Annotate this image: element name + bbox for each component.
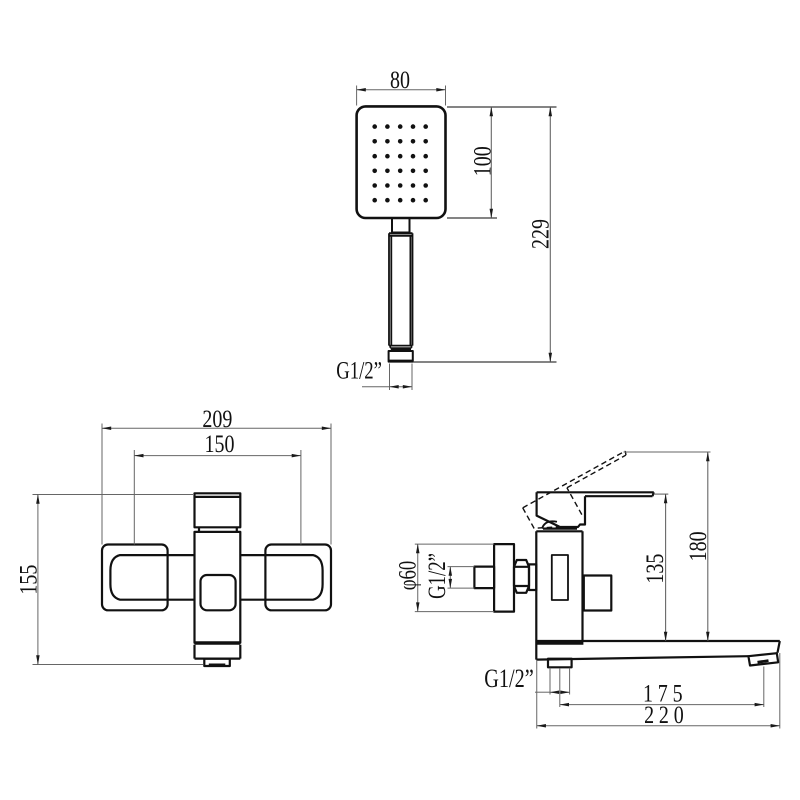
left wing escutcheon (102, 545, 168, 611)
svg-text:155: 155 (15, 565, 43, 595)
dimension phi60 (415, 544, 494, 612)
spout (536, 641, 780, 660)
dimension 135 (654, 494, 669, 641)
handle cap (195, 493, 241, 527)
svg-text:180: 180 (684, 531, 712, 561)
G1/2 connector nut (389, 351, 413, 362)
svg-text:220: 220 (644, 701, 688, 729)
dimension G1/2 (side bottom) (535, 668, 570, 695)
svg-text:G1/2”: G1/2” (484, 665, 534, 694)
dimension 80 (357, 86, 446, 106)
shower head outline (357, 106, 446, 218)
neck (543, 527, 577, 529)
lower band (195, 645, 241, 659)
right arm (240, 555, 322, 600)
diverter plate (201, 575, 236, 610)
svg-text:100: 100 (469, 146, 497, 176)
dimension G1/2 (side left) (448, 567, 475, 589)
spray dots (372, 124, 428, 202)
shower handle body (389, 233, 413, 345)
body (536, 531, 582, 641)
shower handle top flange (389, 233, 413, 236)
svg-text:229: 229 (527, 219, 555, 249)
dimension 155 (33, 495, 204, 665)
svg-text:G1/2”: G1/2” (336, 356, 382, 384)
svg-text:80: 80 (390, 66, 410, 94)
dimension 209 (102, 424, 331, 545)
cartridge dome (542, 521, 557, 528)
handle (raised, dashed) (523, 451, 642, 538)
diverter block right (584, 576, 612, 611)
dimension 180 (624, 452, 711, 641)
svg-text:G1/2”: G1/2” (423, 553, 451, 599)
shower outlet connector (548, 659, 572, 668)
handle lower bands (390, 346, 411, 348)
dimension 175 (560, 667, 764, 708)
left arm (110, 555, 194, 600)
cartridge window (552, 555, 568, 600)
dimension 229 (413, 107, 557, 362)
dimension 100 (447, 107, 557, 218)
dimension 150 (134, 450, 301, 545)
hex union nut (514, 560, 529, 593)
dimension G1/2 (top view) (362, 364, 412, 391)
escutcheon flange (494, 544, 514, 612)
svg-text:209: 209 (202, 405, 232, 433)
aerator tip (748, 653, 778, 665)
right wing escutcheon (265, 545, 331, 611)
shower head neck (392, 218, 410, 233)
joint (199, 527, 237, 532)
handle (solid) (537, 492, 654, 527)
svg-text:φ60: φ60 (393, 561, 421, 591)
dimension 220 (537, 653, 780, 729)
svg-text:135: 135 (641, 554, 669, 584)
svg-text:150: 150 (205, 430, 235, 458)
wall pipe G1/2 (474, 567, 494, 589)
main body (195, 532, 241, 643)
outlet tip (204, 659, 230, 666)
union sleeve (529, 564, 536, 590)
